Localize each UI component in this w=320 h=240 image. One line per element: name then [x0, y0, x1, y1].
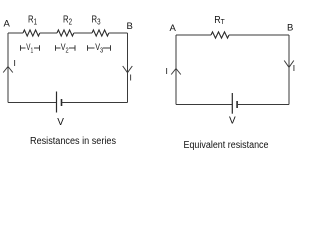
current arrow down (right side, right circuit) [284, 61, 294, 68]
svg-text:I: I [293, 63, 295, 73]
voltage marker V2 [56, 42, 76, 54]
wire left side (right circuit) [175, 35, 177, 105]
battery cell (right circuit) short plate [236, 101, 238, 108]
label V (battery, right circuit) [229, 115, 236, 126]
svg-text:R1: R1 [28, 14, 37, 26]
wire top-right lead (right circuit) [229, 34, 289, 36]
label R2 [63, 14, 72, 26]
battery cell (right circuit) long plate [231, 93, 233, 114]
svg-text:V: V [229, 115, 236, 126]
voltage marker V3 [88, 42, 111, 54]
node A [4, 18, 11, 29]
current arrow down (right side, left circuit) [123, 66, 133, 73]
battery cell (left circuit) long plate [56, 92, 58, 113]
wire left side (left circuit) [7, 33, 9, 103]
wire bottom-right (right circuit) [237, 104, 289, 106]
label I (left side, left circuit) [14, 58, 16, 68]
wire top-left lead (left circuit) [8, 32, 23, 34]
battery cell (left circuit) short plate [61, 99, 63, 106]
voltage marker V1 [21, 42, 40, 54]
caption left [30, 136, 116, 147]
caption right [184, 140, 269, 151]
svg-text:V1: V1 [26, 42, 33, 54]
svg-text:R3: R3 [92, 14, 101, 26]
wire between R1 and R2 [40, 32, 57, 34]
svg-text:I: I [14, 58, 16, 68]
label V (battery, left circuit) [57, 117, 64, 128]
svg-text:Equivalent resistance: Equivalent resistance [184, 140, 269, 151]
wire bottom-left (right circuit) [176, 104, 232, 106]
svg-text:RT: RT [214, 15, 225, 26]
current arrow up (left side, right circuit) [171, 69, 181, 75]
svg-text:I: I [130, 73, 132, 83]
svg-text:V3: V3 [95, 42, 103, 54]
resistor RT [211, 32, 229, 38]
resistor R3 [92, 30, 109, 36]
label I (right side, left circuit) [130, 73, 132, 83]
svg-text:Resistances in series: Resistances in series [30, 136, 116, 147]
resistor R1 [23, 30, 40, 36]
resistor R2 [57, 30, 74, 36]
wire right side (left circuit) [127, 33, 129, 103]
wire between R2 and R3 [74, 32, 92, 34]
label RT [214, 15, 225, 26]
svg-text:B: B [127, 21, 133, 32]
label I (left side, right circuit) [166, 66, 168, 76]
node B [127, 21, 133, 32]
svg-text:A: A [4, 18, 11, 29]
svg-text:I: I [166, 66, 168, 76]
node A (right circuit) [170, 23, 177, 34]
svg-text:V2: V2 [61, 42, 69, 54]
wire top-right lead (left circuit) [109, 32, 128, 34]
svg-text:B: B [287, 22, 293, 33]
label R3 [92, 14, 101, 26]
label I (right side, right circuit) [293, 63, 295, 73]
wire bottom-right (left circuit) [62, 102, 128, 104]
node B (right circuit) [287, 22, 293, 33]
wire top-left lead (right circuit) [176, 34, 211, 36]
svg-text:A: A [170, 23, 177, 34]
svg-text:R2: R2 [63, 14, 72, 26]
label R1 [28, 14, 37, 26]
wire right side (right circuit) [288, 35, 290, 105]
wire bottom-left (left circuit) [8, 102, 57, 104]
svg-text:V: V [57, 117, 64, 128]
current arrow up (left side, left circuit) [3, 67, 13, 73]
